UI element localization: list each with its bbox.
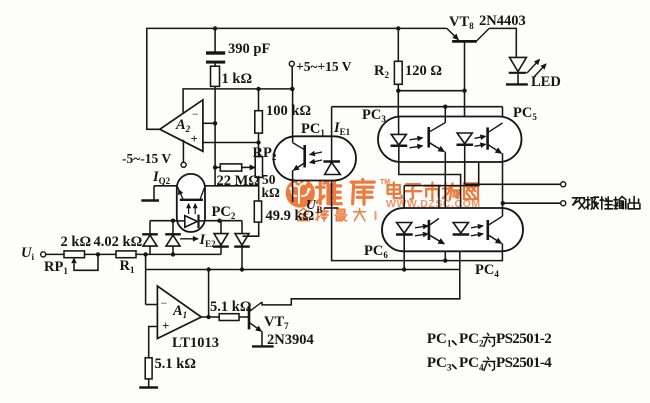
svg-text:I: I — [374, 208, 378, 223]
